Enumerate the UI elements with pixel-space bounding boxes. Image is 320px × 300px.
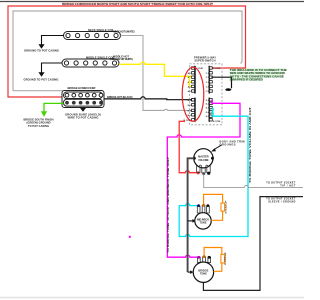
svg-text:C-1: C-1 [206,73,209,75]
svg-text:WIRE TO POT CASING: WIRE TO POT CASING [68,116,99,120]
svg-text:TONE: TONE [200,221,207,224]
junction volume lug2 [202,172,205,175]
lug ears volume [199,165,201,167]
pickup middle single coil [62,59,119,67]
svg-text:D-2: D-2 [206,103,209,105]
svg-text:BRIDGE HOT (BLACK): BRIDGE HOT (BLACK) [107,95,133,99]
svg-text:BRIDGE HUMBUCKER: BRIDGE HUMBUCKER [68,86,96,90]
junction bridge lug1 magenta [197,256,200,259]
svg-text:VOLUME: VOLUME [198,158,209,162]
svg-text:A-5: A-5 [188,90,191,93]
wire middle hot yellow to switch A-2 with hop over gray [119,62,191,76]
junction mid lug2 orange [202,204,205,207]
svg-text:TO BRIDGE TONE 'ATTACK' AND MI: TO BRIDGE TONE 'ATTACK' AND MID/NECK TON… [167,157,170,253]
svg-text:TO POT CASING: TO POT CASING [28,124,49,128]
wire gray (white wire) loop: humbucker to switch area [13,11,242,91]
svg-text:NECK HOT (WHITE): NECK HOT (WHITE) [113,29,135,33]
svg-text:D-3: D-3 [206,108,209,110]
switch 5-way superswitch dashed body [190,64,223,125]
bus arrow to bridge tone casing [188,271,191,273]
svg-text:B-2: B-2 [188,105,191,107]
svg-text:TIP / HOT: TIP / HOT [280,184,296,187]
switch terminals pole B [192,99,195,121]
switch pole labels [184,67,221,123]
red ellipse around left pole terminals [182,67,204,121]
pickup bridge humbucker [62,91,104,108]
capacitor bridge tone body [221,254,225,263]
switch terminals pole D [209,99,212,121]
top window border [0,1,304,3]
wire neck hot (white/gray) to switch B-3 [121,36,192,111]
wire middle ground [42,63,63,73]
svg-text:TONE: TONE [200,273,207,276]
capacitor mid tone body [221,203,225,211]
wire output tip from volume wiper with hop over cyan [204,175,303,188]
node magenta stray dot [129,236,131,238]
svg-text:C-5: C-5 [206,91,209,93]
wire black C-2 to ground dot [212,77,232,88]
wire red loop: humbucker north start to switch C COM [8,6,246,97]
pot master volume [197,166,211,173]
capacitor bridge tone orange loop [204,248,222,272]
svg-text:C COM: C COM [213,68,220,70]
svg-text:C-2: C-2 [206,77,209,79]
jumper yellow A2-A3 [189,77,191,82]
jumper cyan D3-D4 [212,108,214,112]
wire output sleeve ground [203,197,303,291]
svg-text:A-1: A-1 [188,72,191,75]
bus arrow to mid tone casing [188,220,193,222]
junction mid lug1 [197,204,200,207]
pot bridge tone [193,262,213,282]
svg-text:(YELLOW OR WHITE): (YELLOW OR WHITE) [110,57,133,61]
junction bridge lug3 [208,256,211,259]
jumper yellow A3-A4 [189,82,191,87]
wire neck ground [42,36,64,45]
junction B-1 [191,98,194,101]
ground arrow green [41,111,47,117]
svg-text:GROUND TO POT CASING: GROUND TO POT CASING [24,48,59,52]
pot bridge tone lugs [198,257,211,263]
svg-text:B-3: B-3 [188,110,191,112]
wire magenta D-2 to bridge tone with hops [167,103,240,257]
svg-text:D-5: D-5 [206,116,209,118]
wire cyan D-5 to mid tone with hops [179,116,248,236]
switch wafer bars [195,66,209,122]
svg-text:SUPER-SWITCH: SUPER-SWITCH [195,59,216,63]
switch terminals pole C [209,67,212,92]
junction red at volume lug1 [197,171,200,174]
ground bus wire [188,158,194,272]
arrow body grounds to pot [213,145,222,150]
svg-text:0.022uF: 0.022uF [225,199,227,213]
junction volume lug3 [207,172,210,175]
jumper magenta D1-D2 [211,100,214,104]
svg-text:0.022uF: 0.022uF [225,251,227,265]
junction bridge lug2 orange [203,255,206,258]
svg-text:C-3: C-3 [206,82,209,84]
wire green bridge south finish [44,103,64,111]
bottom window border [0,297,304,299]
svg-text:TO BRIDGE TONE VOLUME IN AND O: TO BRIDGE TONE VOLUME IN AND OUT [249,106,252,183]
junction volume casing left [193,157,196,160]
note green text [230,68,287,82]
pot mid/neck tone [195,213,211,229]
svg-text:SLEEVE / GROUND: SLEEVE / GROUND [268,200,295,203]
wire humbucker shield ground arrow [82,107,84,110]
wire bridge hot black to switch B-1 with hop [104,97,191,100]
wire red ellipse bottom to volume pot with hop over bus [179,121,196,172]
pickup neck single coil [64,32,121,40]
junction volume casing right [211,157,214,160]
svg-text:D COM: D COM [213,121,220,123]
capacitor mid tone orange loop [204,194,223,220]
jumper cyan D4-D5 [212,112,214,116]
svg-text:GROUNDS: GROUNDS [220,143,236,146]
pot mid/neck tone lugs [197,206,209,214]
switch terminals pole A [192,67,195,92]
ground arrow middle [38,72,44,77]
ground arrow neck [38,44,44,49]
ground dot [225,88,231,91]
junction mid lug3 [207,204,210,207]
switch terminal labels [188,72,210,118]
svg-text:D-1: D-1 [206,100,209,102]
svg-text:B-1: B-1 [188,100,191,102]
svg-text:GROUND TO POT CASING: GROUND TO POT CASING [24,77,59,81]
